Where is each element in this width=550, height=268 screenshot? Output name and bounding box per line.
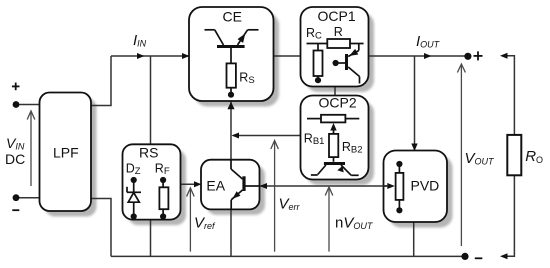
wire EA down (230, 209, 232, 256)
wire RS block down (150, 220, 152, 257)
annotation arrows (27, 64, 465, 252)
resistor R in OCP1 (327, 39, 350, 48)
wire RO bottom (507, 175, 514, 256)
svg-text:OCP2: OCP2 (319, 95, 357, 111)
wire RO top (507, 56, 514, 135)
wire IIN rail (111, 55, 189, 57)
arrow RO to + (500, 53, 508, 59)
block RS (123, 144, 181, 219)
arrow into CE bottom (227, 102, 234, 110)
wire LPF to bottom rail (91, 199, 111, 257)
block CE (189, 7, 274, 101)
svg-text:LPF: LPF (53, 145, 79, 161)
arrow into EA right (260, 183, 268, 189)
arrow OCP2 into base node (232, 133, 240, 139)
wiper arrow in PVD (387, 183, 395, 189)
wire RS to EA (181, 183, 200, 185)
block shadows (45, 13, 453, 228)
resistor RB1 in OCP2 (307, 119, 359, 162)
wire - terminal to LPF (16, 197, 40, 199)
svg-text:R: R (334, 25, 343, 39)
resistor RS in CE (227, 63, 236, 87)
wire OCP2 to base node (233, 135, 301, 137)
arrow IIN 1 (137, 53, 145, 59)
potentiometer in PVD (384, 164, 400, 210)
wire junction to RS block (150, 56, 152, 144)
block EA (201, 160, 260, 210)
node Verr annotation arrow (274, 142, 276, 252)
resistor RC in OCP1 (307, 44, 364, 80)
wire OCP1 to OCP2 (334, 87, 336, 96)
node VIN annotation arrow (30, 112, 32, 186)
resistor RB2 in OCP2 (329, 134, 338, 157)
node nVOUT annotation arrow (328, 188, 330, 252)
arrow IIN 2 into CE (182, 53, 190, 59)
svg-text:CE: CE (223, 9, 242, 25)
node + output terminal (464, 53, 471, 60)
wire LPF to IIN rail (91, 56, 111, 106)
wire + terminal to LPF (16, 104, 40, 106)
wire CE to OCP1 (274, 55, 301, 57)
node + input terminal (13, 101, 20, 108)
svg-text:RS: RS (139, 145, 158, 161)
resistor RO (507, 135, 521, 175)
wire bottom rail (111, 255, 465, 257)
transistor in OCP2 (311, 165, 359, 175)
svg-text:OCP1: OCP1 (318, 8, 356, 24)
block OCP2 (301, 95, 369, 180)
node - output terminal (461, 253, 468, 260)
node VOUT annotation arrow (460, 65, 462, 246)
svg-text:EA: EA (206, 178, 225, 194)
wire down to PVD (414, 56, 416, 151)
transistor in EA (231, 160, 259, 209)
block OCP1 (301, 7, 369, 87)
transistor in OCP1 (339, 44, 360, 84)
block PVD (384, 151, 448, 223)
arrow RO to - (500, 253, 508, 259)
node Vref annotation arrow (189, 189, 191, 252)
svg-text:PVD: PVD (411, 178, 440, 194)
wire CE to EA (230, 101, 232, 160)
wire PVD down (413, 222, 415, 257)
arrow into PVD top (411, 144, 417, 152)
block LPF (40, 93, 92, 212)
wire OCP1 to + output (369, 55, 468, 57)
wire feedback EA to PVD (261, 185, 390, 187)
arrow RS into EA (194, 181, 202, 187)
transistor in CE (205, 30, 259, 92)
node - input terminal (13, 194, 20, 201)
arrow IOUT (424, 53, 432, 59)
svg-text:DC: DC (5, 151, 25, 167)
